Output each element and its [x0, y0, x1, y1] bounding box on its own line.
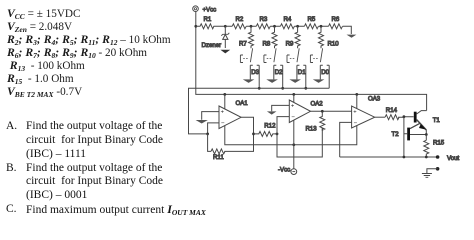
node D1 bus	[304, 87, 307, 90]
svg-text:D2: D2	[275, 69, 283, 76]
wire ground terminal	[427, 169, 438, 174]
svg-text:−: −	[291, 114, 295, 121]
resistor R2	[232, 16, 246, 29]
resistor R5	[304, 16, 318, 29]
svg-text:Vout: Vout	[447, 155, 460, 162]
node R12 right	[276, 133, 279, 136]
wire -Vcc line A	[225, 126, 357, 145]
node OA2 V+	[292, 93, 295, 96]
svg-text:Dzener: Dzener	[202, 42, 222, 49]
resistor R10	[319, 26, 340, 48]
wire +Vcc rail	[196, 12, 427, 111]
node OA3 V+	[355, 93, 358, 96]
wire OA2 +in to ground	[272, 105, 290, 111]
resistor R3	[256, 16, 270, 29]
op-amp OA2	[289, 100, 323, 123]
switch D0	[310, 48, 329, 88]
node T1 emitter R15	[425, 133, 428, 136]
svg-text:D1: D1	[298, 69, 306, 76]
-Vcc terminal	[291, 169, 297, 175]
op-amp OA1	[219, 100, 248, 129]
wire OA2 output to OA3	[311, 110, 352, 112]
ground R6	[347, 35, 357, 38]
svg-text:T2: T2	[392, 131, 400, 138]
wire output line C	[340, 156, 438, 158]
switch D2	[264, 48, 283, 88]
+Vcc terminal	[193, 6, 199, 12]
ground OA2	[267, 111, 277, 114]
wire OA2 V- stub to -Vcc	[293, 120, 295, 169]
wire OA1 +in to ground	[202, 112, 219, 120]
wire OA1 -in	[208, 123, 219, 134]
node R8 top	[273, 25, 276, 28]
switch D3	[240, 48, 259, 88]
svg-text:−: −	[354, 120, 358, 127]
resistor R14	[385, 107, 399, 120]
ground D2	[266, 79, 278, 83]
svg-text:+Vcc: +Vcc	[203, 6, 217, 13]
node OA1 -in	[206, 133, 209, 136]
output ground terminal	[436, 167, 440, 171]
node D3 bus	[258, 87, 261, 90]
resistor R4	[280, 16, 294, 29]
node R7 top	[250, 25, 253, 28]
svg-text:OA2: OA2	[311, 101, 324, 108]
transistor T1	[414, 111, 441, 135]
resistor R9	[286, 26, 301, 48]
wire OA1 output	[241, 117, 253, 134]
node R13 top	[321, 110, 324, 113]
svg-text:-Vcc: -Vcc	[278, 166, 290, 173]
zener diode Dzener	[202, 26, 230, 49]
resistor R15	[424, 140, 445, 158]
wire OA2 -in riser	[277, 117, 289, 134]
node R1 left	[194, 25, 197, 28]
node R9 top	[296, 25, 299, 28]
wire R11 to OA1 out	[224, 134, 253, 152]
svg-text:R15: R15	[433, 140, 445, 147]
node R15 bottom	[425, 156, 428, 159]
wire OA3 output	[375, 116, 385, 118]
wire top rail R2-R6	[225, 26, 351, 34]
ground D0	[313, 79, 325, 83]
svg-text:R2: R2	[236, 16, 244, 23]
node T2 bottom	[403, 156, 406, 159]
node R10 top	[320, 25, 323, 28]
ground D3	[243, 79, 255, 83]
svg-text:+: +	[353, 109, 357, 115]
wire T2 riser	[403, 117, 405, 157]
Vout terminal	[436, 155, 440, 159]
ground D1	[289, 79, 301, 83]
op-amp OA3	[352, 95, 381, 128]
svg-text:R11: R11	[213, 154, 224, 161]
resistor R7	[239, 26, 254, 48]
svg-text:D3: D3	[251, 69, 259, 76]
transistor T2	[392, 123, 427, 140]
svg-text:R6: R6	[332, 16, 340, 23]
svg-text:T1: T1	[433, 117, 441, 124]
resistor R1	[196, 16, 226, 29]
svg-text:R12: R12	[264, 123, 276, 130]
svg-text:R7: R7	[239, 41, 247, 48]
wire OA3 V+ stub	[356, 94, 358, 108]
given-data text block	[7, 7, 171, 98]
wire OA2 V+ stub	[293, 94, 295, 102]
wire bus line1	[189, 88, 330, 134]
svg-text:R5: R5	[308, 16, 316, 23]
svg-text:R8: R8	[263, 41, 271, 48]
question items A B C	[6, 120, 206, 216]
wire emitter to R15	[425, 135, 427, 141]
svg-text:+: +	[291, 103, 295, 109]
svg-text:R1: R1	[204, 16, 212, 23]
svg-text:R14: R14	[386, 107, 398, 114]
svg-text:R10: R10	[328, 41, 340, 48]
node zener top	[224, 25, 227, 28]
resistor R13	[306, 111, 325, 132]
switch D1	[287, 48, 306, 88]
resistor R11	[211, 149, 225, 161]
ground output	[422, 174, 432, 178]
svg-text:R3: R3	[260, 16, 268, 23]
node -Vcc junction	[292, 143, 295, 146]
node D2 bus	[281, 87, 284, 90]
svg-text:D0: D0	[321, 69, 329, 76]
svg-text:R13: R13	[306, 126, 318, 133]
wire OA2 feedback lower	[277, 128, 322, 157]
wire OA1 -in down to R11	[208, 134, 211, 152]
svg-text:−: −	[221, 120, 225, 127]
resistor R12	[254, 123, 278, 137]
svg-text:R4: R4	[284, 16, 292, 23]
svg-text:OA3: OA3	[368, 95, 381, 102]
wire OA3 -in feedback	[340, 122, 352, 157]
ground zener	[220, 50, 230, 54]
svg-text:OA1: OA1	[236, 100, 249, 107]
wire OA1 V+ stub	[224, 94, 226, 109]
wire R14 to T1 base	[398, 116, 414, 119]
ground OA1	[196, 120, 208, 124]
node OA1 V+	[223, 93, 226, 96]
resistor R8	[263, 26, 278, 48]
node OA1 out junction	[252, 133, 255, 136]
svg-text:R9: R9	[286, 41, 294, 48]
node T1 base / T2 riser	[403, 115, 406, 118]
resistor R6	[329, 16, 343, 29]
svg-text:+: +	[221, 109, 225, 115]
